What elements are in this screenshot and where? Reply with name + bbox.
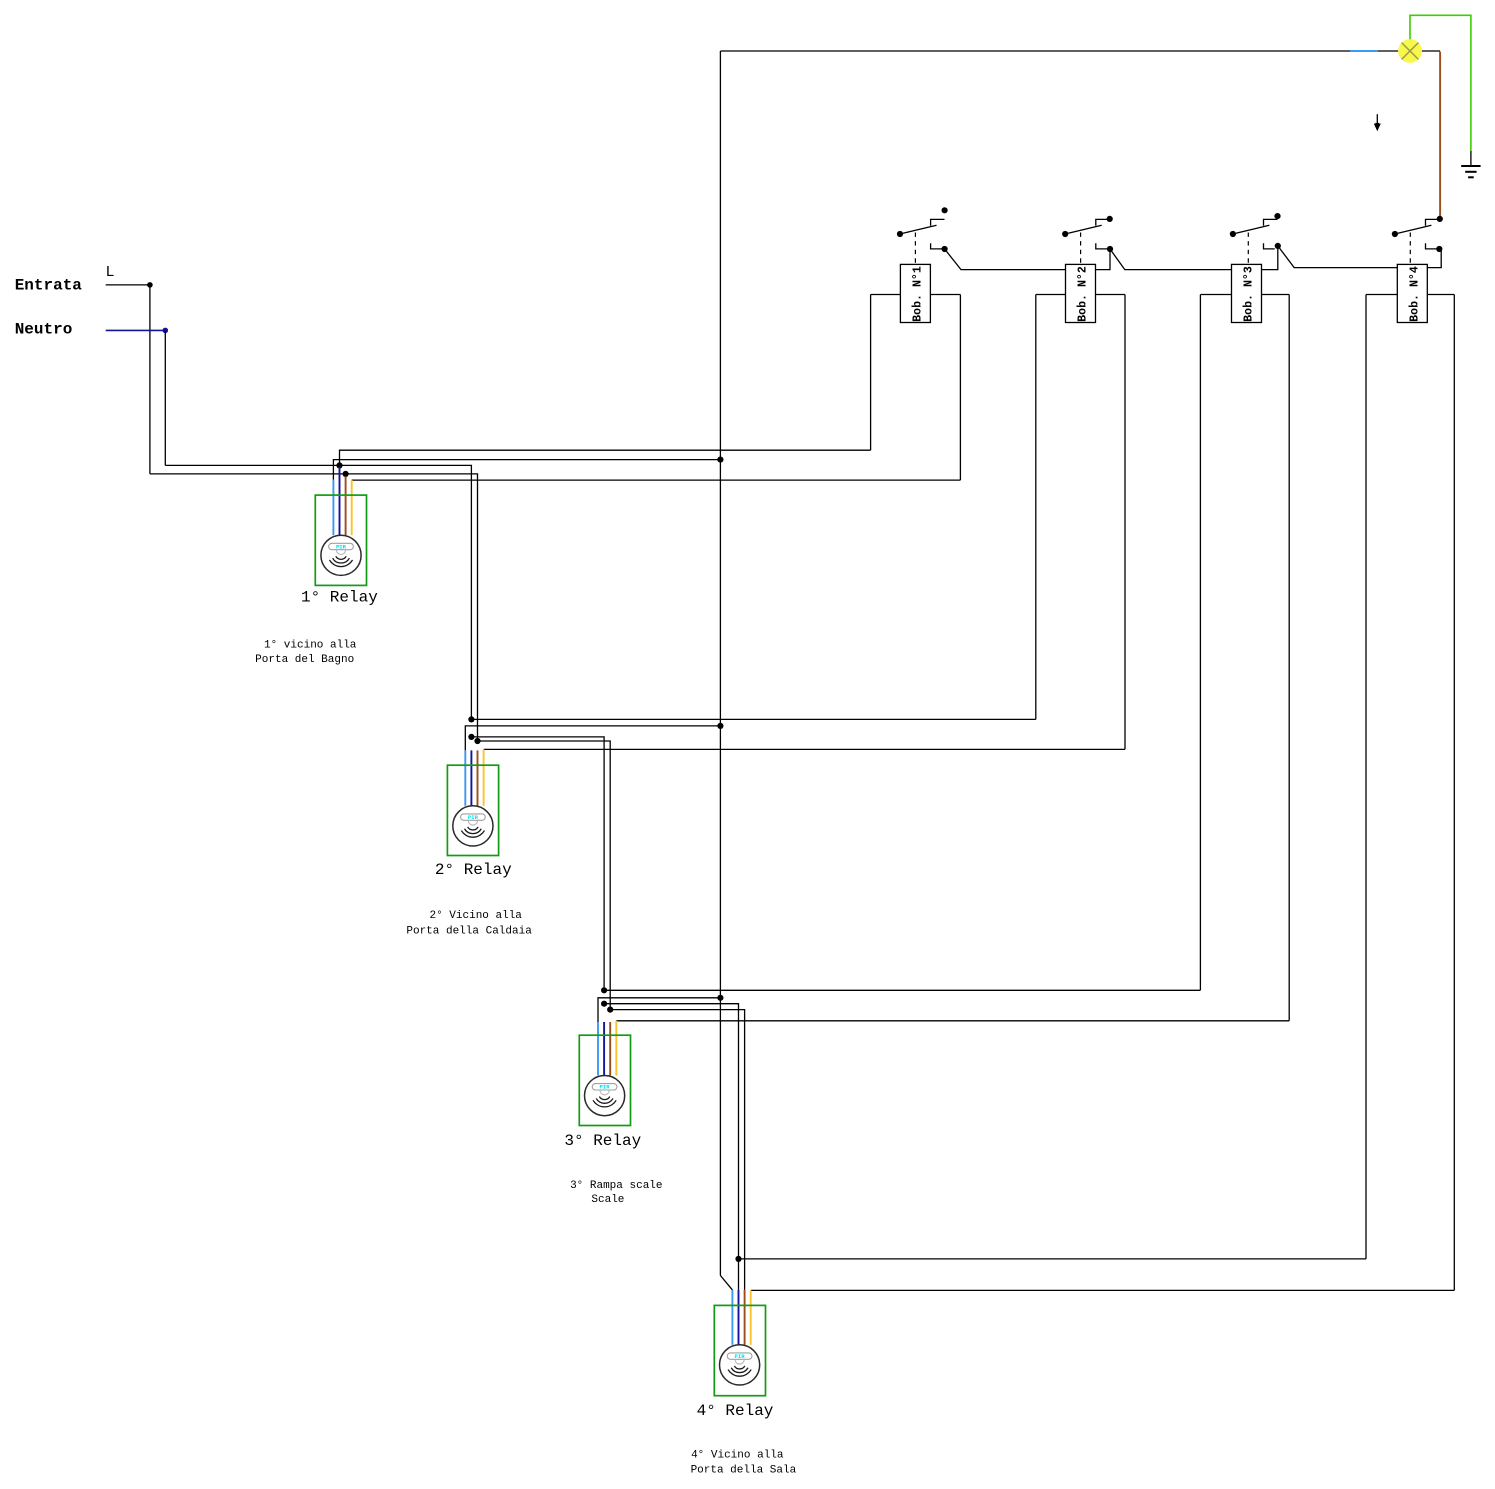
linkage: dashed actuator S2 to coil Bob. N.2 — [1080, 233, 1082, 265]
wire: relay1 navy (neutral) lead — [339, 467, 341, 535]
wire: unit 3 left vertical drop — [1199, 295, 1201, 991]
wire: unit 2 top edge horizontal — [1036, 294, 1125, 296]
relay U1 enclosure (green box) — [315, 495, 366, 585]
wire: lamp feed blue segment — [1350, 50, 1378, 52]
svg-text:1° vicino alla: 1° vicino alla — [264, 639, 357, 651]
svg-text:Porta del Bagno: Porta del Bagno — [255, 654, 354, 666]
wire: relay4 brown (live) lead — [744, 1290, 746, 1345]
wire: unit 1 right vertical drop — [959, 295, 961, 481]
wire: relay2 yellow return bus to coil2 — [484, 748, 1125, 750]
svg-text:Bob. N°2: Bob. N°2 — [1077, 266, 1090, 322]
svg-text:Entrata: Entrata — [15, 277, 83, 295]
wire: neutral-to-coil3 bus — [604, 989, 1200, 991]
switch S3 pole contact dot — [1230, 231, 1236, 237]
wire: green earth conductor from lamp top — [1410, 15, 1471, 151]
switch S1 moving arm — [903, 225, 937, 233]
switch S4 lower contact dot — [1436, 246, 1442, 252]
switch S1 upper throw bracket — [931, 219, 945, 225]
relay U1 PIR sensor symbol — [321, 535, 361, 575]
coil Bob. N.2 body — [1066, 264, 1096, 322]
wire: neutral-to-coil1 bus (top) — [340, 450, 871, 465]
wire: long switched-live riser x=720 from lamp feed down to relay 4 — [719, 51, 721, 1276]
wire: neutral bus onward to relay3 — [471, 737, 604, 990]
svg-text:Bob. N°3: Bob. N°3 — [1243, 266, 1256, 322]
svg-text:Neutro: Neutro — [15, 321, 73, 339]
wire: relay1 yellow lead — [351, 480, 353, 535]
switch S1 pole contact dot — [897, 231, 903, 237]
coil Bob. N.3 body — [1232, 264, 1262, 322]
wire: relay2 blue switched-live bus to riser — [465, 726, 720, 751]
wire: L (Entrata) horizontal feeder — [106, 284, 150, 286]
linkage: dashed actuator S1 to coil Bob. N.1 — [914, 233, 916, 265]
switch S4 lower throw bracket — [1426, 243, 1437, 249]
ground (earth symbol) — [1461, 166, 1480, 177]
switch S2 upper throw bracket — [1096, 219, 1110, 225]
wire: relay2 blue lead — [464, 750, 466, 805]
wire: unit 1 left vertical drop — [870, 295, 872, 451]
wire: unit 1 top edge horizontal — [871, 294, 961, 296]
wire: relay1 blue switched-live bus to riser — [333, 460, 720, 480]
node: junction relay3 brown on L bus — [607, 1007, 613, 1013]
svg-text:2° Relay: 2° Relay — [435, 861, 512, 879]
switch S3 lower throw bracket — [1264, 243, 1275, 249]
wire: neutral-to-coil2 bus — [471, 718, 1035, 720]
switch S2 pole contact dot — [1062, 231, 1068, 237]
svg-text:PIR: PIR — [336, 543, 347, 550]
wire: relay3 blue switched-live bus to riser — [598, 998, 720, 1022]
wire: relay1 brown (live) lead — [345, 477, 347, 536]
wire: relay3 blue lead — [597, 1022, 599, 1076]
wire: relay4 neutral tail into navy lead — [738, 1259, 740, 1290]
wire: lamp feed black segment to lamp — [1378, 50, 1399, 52]
node: L feeder junction — [147, 282, 153, 288]
node: junction relay1 brown tap on L bus — [343, 471, 349, 477]
wire: relay3 yellow lead — [615, 1021, 617, 1076]
switch S2 lower throw bracket — [1096, 243, 1107, 249]
wire: relay4 blue lead — [731, 1290, 733, 1345]
wire: L bus onward to relay3 — [478, 741, 611, 1010]
node: junction relay2 navy on neutral bus — [468, 734, 474, 740]
switch S1 lower contact dot — [942, 246, 948, 252]
svg-text:2° Vicino alla: 2° Vicino alla — [429, 910, 522, 922]
wire: unit 4 top edge horizontal — [1366, 294, 1454, 296]
relay U2 PIR sensor symbol — [453, 806, 493, 846]
node: junction riser / relay1 blue bus — [717, 457, 723, 463]
arrow: down arrow marker near lamp — [1374, 114, 1381, 131]
wire: unit 3 right vertical drop — [1288, 295, 1290, 1021]
svg-text:Porta della Caldaia: Porta della Caldaia — [406, 926, 532, 938]
wire: neutral bus through relay1 area — [165, 465, 471, 719]
lamp E1 (yellow crossed-circle luminaire) — [1398, 39, 1422, 63]
node: junction neutral / coil3 bus — [601, 987, 607, 993]
svg-text:Porta della Sala: Porta della Sala — [691, 1464, 797, 1476]
switch S3 upper throw bracket — [1264, 219, 1278, 225]
svg-text:PIR: PIR — [468, 814, 479, 821]
wire: L bus onward to relay4 — [610, 1010, 744, 1290]
switch S3 moving arm — [1236, 225, 1270, 233]
wire: brown drop from lamp to switch S4 NO contact — [1439, 52, 1441, 217]
relay U3 enclosure (green box) — [579, 1035, 630, 1125]
node: junction riser / relay3 blue bus — [717, 995, 723, 1001]
node: Neutro feeder junction (navy) — [163, 328, 169, 334]
svg-text:Scale: Scale — [591, 1194, 624, 1206]
coil Bob. N.1 body — [900, 264, 930, 322]
switch S4 upper contact dot — [1437, 216, 1443, 222]
switch S2 lower contact dot — [1107, 246, 1113, 252]
wire: relay3 brown (live) lead — [609, 1022, 611, 1076]
relay U2 enclosure (green box) — [447, 765, 498, 855]
switch S2 upper contact dot — [1107, 216, 1113, 222]
wire: lamp feed horizontal from long riser to lamp (black) — [720, 50, 1350, 52]
svg-text:L: L — [106, 264, 115, 281]
node: junction neutral / coil2 bus — [468, 716, 474, 722]
wire: relay2 brown (live) lead — [477, 750, 479, 805]
svg-text:4° Relay: 4° Relay — [697, 1402, 774, 1420]
node: junction relay3 navy on neutral bus — [601, 1001, 607, 1007]
node: junction neutral / coil4 bus — [735, 1256, 741, 1262]
svg-text:3° Rampa scale: 3° Rampa scale — [570, 1180, 662, 1192]
wire: relay2 yellow lead — [483, 749, 485, 805]
wire: relay3 yellow return bus to coil3 — [616, 1020, 1289, 1022]
svg-text:3° Relay: 3° Relay — [564, 1132, 641, 1150]
wire: relay3 navy (neutral) lead — [603, 1022, 605, 1076]
wire: series link S2 lower contact to S3 — [1110, 248, 1278, 270]
wire: unit 2 right vertical drop — [1124, 295, 1126, 750]
svg-text:1° Relay: 1° Relay — [301, 588, 378, 606]
switch S1 upper contact dot — [942, 207, 948, 213]
wire: L vertical drop to L bus — [149, 285, 151, 474]
switch S4 moving arm — [1398, 225, 1432, 233]
wire: relay1 blue lead — [332, 480, 334, 536]
wire: Neutro horizontal feeder (navy) — [106, 329, 166, 331]
wire: relay2 navy (neutral) lead — [470, 750, 472, 805]
wire: unit 4 left vertical drop — [1365, 295, 1367, 1259]
wire: relay4 yellow lead — [750, 1290, 752, 1344]
relay U4 PIR sensor symbol — [720, 1345, 760, 1385]
linkage: dashed actuator S4 to coil Bob. N.4 — [1409, 233, 1411, 265]
wire: lamp right terminal black stub — [1422, 50, 1440, 52]
wire: Neutro vertical drop to neutral bus — [164, 330, 166, 465]
switch S3 upper contact dot — [1274, 213, 1280, 219]
wire: neutral-to-coil4 bus — [739, 1258, 1367, 1260]
svg-text:4° Vicino alla: 4° Vicino alla — [691, 1449, 784, 1461]
node: junction relay2 brown on L bus — [474, 738, 480, 744]
svg-text:Bob. N°1: Bob. N°1 — [911, 266, 924, 322]
wire: black stub to ground symbol — [1470, 151, 1472, 165]
switch S3 lower contact dot — [1275, 243, 1281, 249]
wire: relay1 yellow return bus to coil1 — [352, 479, 961, 481]
switch S2 moving arm — [1068, 225, 1102, 233]
wire: unit 3 top edge horizontal — [1200, 294, 1289, 296]
wire: series link S1 lower contact to S2 — [945, 249, 1110, 270]
wire: relay4 yellow return bus to coil4 — [751, 1289, 1455, 1291]
wire: relay4 navy (neutral) lead — [738, 1290, 740, 1345]
switch S1 lower throw bracket — [931, 243, 942, 249]
wire: unit 4 right vertical drop — [1453, 295, 1455, 1291]
coil Bob. N.4 body — [1397, 264, 1427, 322]
node: junction riser / relay2 blue bus — [717, 723, 723, 729]
relay U4 enclosure (green box) — [714, 1305, 765, 1395]
wire: neutral bus onward to relay4 — [604, 1004, 738, 1259]
wire: L bus through relay1 area — [150, 474, 478, 741]
wire: series link S3 lower contact to S4 — [1278, 246, 1441, 268]
svg-text:PIR: PIR — [600, 1084, 611, 1091]
switch S4 upper throw bracket — [1426, 219, 1440, 225]
svg-text:PIR: PIR — [735, 1353, 746, 1360]
relay U3 PIR sensor symbol — [585, 1076, 625, 1116]
svg-text:Bob. N°4: Bob. N°4 — [1408, 266, 1421, 322]
wire: riser diagonal into relay 4 blue lead — [720, 1276, 732, 1290]
node: junction relay1 navy tap on neutral bus — [336, 462, 342, 468]
wire: unit 2 left vertical drop — [1035, 295, 1037, 720]
switch S4 pole contact dot — [1392, 231, 1398, 237]
linkage: dashed actuator S3 to coil Bob. N.3 — [1247, 233, 1249, 265]
